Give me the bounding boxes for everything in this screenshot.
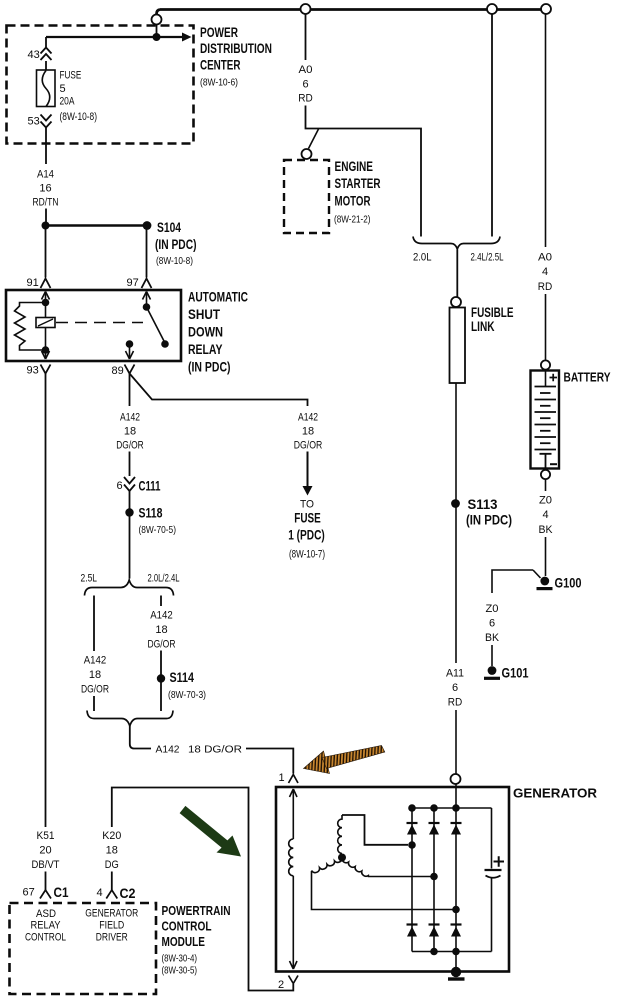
label wire A142 18 DG/OR (2.5L branch) xyxy=(81,655,109,696)
node junction dot PDC feed xyxy=(153,33,161,41)
label ASD relay control xyxy=(25,908,66,944)
diode D5 xyxy=(429,923,440,925)
svg-text:18 DG/OR: 18 DG/OR xyxy=(188,744,242,756)
label wire K20 18 DG xyxy=(102,830,121,871)
diode bridge column 1 xyxy=(411,808,413,952)
svg-text:4: 4 xyxy=(542,266,548,278)
svg-text:16: 16 xyxy=(39,183,51,195)
node bus connector circle B (generator feed) xyxy=(487,4,497,14)
label wire Z0 6 BK xyxy=(485,603,500,644)
svg-text:97: 97 xyxy=(127,277,139,289)
node contact end dot xyxy=(161,340,169,348)
node splice S104 xyxy=(143,221,152,230)
wire A0 4 RD lower xyxy=(545,294,547,361)
callout arrow green xyxy=(180,806,241,857)
powertrain control module box xyxy=(10,903,157,994)
node dot col2 top xyxy=(430,804,438,812)
svg-text:(8W-70-3): (8W-70-3) xyxy=(168,689,206,701)
svg-text:MODULE: MODULE xyxy=(162,934,206,949)
svg-text:K20: K20 xyxy=(102,830,121,842)
svg-text:DG/OR: DG/OR xyxy=(116,440,144,452)
brace merge above A142 xyxy=(87,711,173,727)
node battery positive terminal circle xyxy=(541,360,550,369)
svg-text:RELAY: RELAY xyxy=(31,920,62,932)
svg-text:(8W-10-8): (8W-10-8) xyxy=(156,255,193,267)
fuse F5 xyxy=(37,70,56,107)
svg-text:18: 18 xyxy=(106,845,118,857)
svg-text:A11: A11 xyxy=(446,668,464,680)
ground generator internal xyxy=(451,967,461,977)
node stator center xyxy=(338,854,346,862)
svg-text:S118: S118 xyxy=(139,506,163,521)
diode D2 xyxy=(429,822,440,824)
svg-text:(IN PDC): (IN PDC) xyxy=(155,237,197,252)
node dot col2 phase xyxy=(430,873,438,881)
svg-text:DG/OR: DG/OR xyxy=(294,440,323,452)
svg-text:RELAY: RELAY xyxy=(188,342,223,357)
svg-text:18: 18 xyxy=(155,624,167,636)
ground G100 xyxy=(540,577,549,586)
svg-text:SHUT: SHUT xyxy=(188,307,221,322)
wire A0 6 RD upper xyxy=(305,14,307,60)
wire 2.4L/2.5L feed xyxy=(491,14,493,237)
svg-text:2.0L/2.4L: 2.0L/2.4L xyxy=(148,573,180,585)
svg-text:93: 93 xyxy=(27,365,39,377)
svg-text:DG/OR: DG/OR xyxy=(81,684,109,696)
svg-text:S104: S104 xyxy=(157,220,181,235)
label powertrain control module xyxy=(162,903,231,949)
node bus connector circle A (starter feed) xyxy=(301,4,311,14)
node relay coil top dot xyxy=(42,299,50,307)
pin 97 chevron xyxy=(142,279,152,289)
wire to relay pin 91 xyxy=(45,226,47,278)
svg-text:18: 18 xyxy=(124,426,136,438)
svg-text:6: 6 xyxy=(302,79,308,91)
pin 89 chevron xyxy=(125,365,135,374)
wire bridge bottom bus xyxy=(412,951,492,953)
node splice S118 xyxy=(125,508,133,516)
label power distribution center xyxy=(200,25,272,73)
svg-text:RD: RD xyxy=(448,697,463,709)
wire bridge top bus xyxy=(412,807,492,809)
svg-text:FUSE: FUSE xyxy=(294,511,321,526)
ground G101 xyxy=(488,666,497,675)
wire arrow into PDC xyxy=(46,36,182,38)
wire chevron to fuse xyxy=(45,61,47,70)
svg-text:C111: C111 xyxy=(139,479,161,494)
wire Z0 4 BK lower xyxy=(545,537,547,576)
svg-text:20: 20 xyxy=(39,845,51,857)
relay armature dashed link xyxy=(56,322,143,324)
pin 53 double chevron xyxy=(41,115,52,128)
svg-text:A142: A142 xyxy=(156,744,180,756)
svg-text:DB/VT: DB/VT xyxy=(32,859,60,871)
svg-text:DG/OR: DG/OR xyxy=(148,639,176,651)
label automatic shut down relay xyxy=(188,290,248,375)
node junction dot at S104 line xyxy=(42,222,50,230)
svg-text:4: 4 xyxy=(97,887,103,899)
wire splice S104 xyxy=(46,224,148,227)
wire A0 6 RD to starter junction xyxy=(306,106,422,237)
svg-text:(8W-10-6): (8W-10-6) xyxy=(200,77,238,89)
svg-text:CONTROL: CONTROL xyxy=(25,932,66,944)
wire 2.5L branch upper xyxy=(93,596,95,652)
svg-text:A0: A0 xyxy=(538,252,552,264)
brace engine merge xyxy=(413,237,500,250)
svg-text:DOWN: DOWN xyxy=(188,325,223,340)
svg-text:BATTERY: BATTERY xyxy=(564,370,611,385)
connector C111 double chevron xyxy=(124,477,135,491)
pin 93 chevron xyxy=(41,365,51,374)
wire to C111 xyxy=(129,452,131,477)
wire Z0 4 BK upper xyxy=(545,479,547,491)
relay K1 automatic shut down box xyxy=(6,290,181,361)
label wire Z0 4 BK xyxy=(539,495,554,537)
wire K20 generator field driver xyxy=(112,788,293,991)
svg-text:STARTER: STARTER xyxy=(335,176,381,191)
svg-text:C1: C1 xyxy=(54,885,69,900)
node contact fixed dot xyxy=(143,303,151,311)
diode D4 xyxy=(407,923,418,925)
node starter terminal circle xyxy=(302,149,312,159)
svg-text:67: 67 xyxy=(23,887,35,899)
pin 91 chevron xyxy=(41,279,51,289)
capacitor C1 generator xyxy=(485,808,505,952)
svg-text:4: 4 xyxy=(542,509,548,521)
svg-text:(8W-21-2): (8W-21-2) xyxy=(334,214,371,226)
label generator field driver xyxy=(85,908,138,944)
wire A14 upper xyxy=(45,128,47,164)
wire starter stub xyxy=(309,129,319,149)
wire A11 to generator xyxy=(455,710,457,774)
wire pin 89 to fuse 1 branch xyxy=(130,374,308,407)
wire stator phase A thick link xyxy=(342,815,408,845)
svg-text:ASD: ASD xyxy=(36,908,56,920)
svg-text:DG: DG xyxy=(105,859,119,871)
wire A14 lower xyxy=(45,209,47,223)
svg-text:GENERATOR: GENERATOR xyxy=(85,908,138,920)
svg-text:CONTROL: CONTROL xyxy=(162,919,212,934)
label wire A142 18 DG/OR (fuse 1 branch) xyxy=(294,412,323,452)
svg-text:1: 1 xyxy=(279,772,285,784)
node fusible link terminal circle xyxy=(451,297,461,307)
svg-text:K51: K51 xyxy=(37,830,55,842)
svg-text:89: 89 xyxy=(112,365,124,377)
svg-text:DRIVER: DRIVER xyxy=(96,932,128,944)
svg-text:43: 43 xyxy=(28,49,40,61)
svg-text:5: 5 xyxy=(60,83,66,95)
svg-text:A14: A14 xyxy=(37,169,54,181)
pin 1 chevron xyxy=(289,775,299,784)
pin 91 internal arrow xyxy=(42,292,50,353)
svg-text:A142: A142 xyxy=(298,412,318,424)
svg-text:LINK: LINK xyxy=(471,319,495,334)
svg-text:BK: BK xyxy=(485,632,500,644)
node bus connector circle C (battery feed) xyxy=(541,4,551,14)
label wire A142 18 DG/OR (left of relay) xyxy=(116,412,144,452)
fusible link xyxy=(450,308,466,384)
label wire A11 6 RD xyxy=(446,668,464,709)
node splice S113 xyxy=(451,499,460,508)
svg-text:FIELD: FIELD xyxy=(99,920,124,932)
svg-text:2.5L: 2.5L xyxy=(81,573,98,585)
wire to G101 xyxy=(491,645,493,666)
svg-text:A142: A142 xyxy=(84,655,107,667)
label fuse 5 20A xyxy=(60,70,98,124)
node dot col1 phase xyxy=(408,841,416,849)
svg-text:C2: C2 xyxy=(120,886,136,901)
wire top bus B+ xyxy=(157,10,542,15)
svg-text:2: 2 xyxy=(278,979,284,991)
svg-text:S113: S113 xyxy=(468,497,498,512)
svg-text:Z0: Z0 xyxy=(539,495,552,507)
wire ground branch xyxy=(492,570,541,593)
node dot col1 top xyxy=(408,804,416,812)
wire brace to fusible link xyxy=(456,250,458,298)
svg-text:POWERTRAIN: POWERTRAIN xyxy=(162,903,231,918)
svg-text:BK: BK xyxy=(539,524,554,536)
label wire K51 20 DB/VT xyxy=(32,830,60,871)
label engine starter motor xyxy=(335,159,381,209)
battery minus sign xyxy=(550,463,557,465)
node relay coil bottom dot xyxy=(42,346,50,354)
diode D3 xyxy=(451,822,462,824)
svg-text:DISTRIBUTION: DISTRIBUTION xyxy=(200,41,272,56)
callout arrow orange striped xyxy=(304,746,385,774)
node dot col3 phase xyxy=(452,906,460,914)
node dot col3 top xyxy=(452,804,460,812)
generator stator wye xyxy=(312,815,457,910)
svg-text:1 (PDC): 1 (PDC) xyxy=(288,528,325,543)
svg-text:(IN PDC): (IN PDC) xyxy=(188,360,231,375)
diode bridge column 2 xyxy=(433,808,435,952)
svg-text:18: 18 xyxy=(302,426,314,438)
generator field coil xyxy=(289,789,297,969)
svg-text:AUTOMATIC: AUTOMATIC xyxy=(188,290,248,305)
node battery negative terminal circle xyxy=(541,470,550,479)
svg-text:6: 6 xyxy=(489,618,495,630)
battery xyxy=(531,371,560,469)
wire K51 long left xyxy=(45,374,47,828)
svg-text:G101: G101 xyxy=(502,666,529,681)
engine starter motor box xyxy=(284,160,329,233)
wire to pin 1 xyxy=(246,749,293,774)
label wire A14 16 RD/TN xyxy=(33,169,59,209)
pin C1 fork xyxy=(40,890,51,899)
wire merged A142 to generator pin 1 xyxy=(130,726,151,749)
svg-text:TO: TO xyxy=(300,499,314,511)
svg-text:(8W-10-7): (8W-10-7) xyxy=(289,549,325,561)
svg-text:POWER: POWER xyxy=(200,25,238,40)
wire C111 to S118 xyxy=(129,491,131,579)
node dot col3 bottom xyxy=(452,948,460,956)
wire from pin 89 down xyxy=(129,374,131,407)
svg-text:2.4L/2.5L: 2.4L/2.5L xyxy=(471,252,504,264)
svg-text:RD: RD xyxy=(538,281,553,293)
svg-text:6: 6 xyxy=(117,480,123,492)
svg-text:20A: 20A xyxy=(60,96,76,108)
brace split below S118 xyxy=(85,580,174,596)
svg-text:S114: S114 xyxy=(170,670,195,685)
battery plus sign xyxy=(550,374,558,381)
label wire A0 6 RD xyxy=(298,64,313,105)
svg-text:(8W-30-4): (8W-30-4) xyxy=(162,953,198,965)
diode bridge column 3 main line xyxy=(455,779,457,972)
wire S113 to A11 label xyxy=(455,504,457,664)
pin 97 internal arrow and contact xyxy=(143,292,166,344)
svg-text:RD: RD xyxy=(298,93,313,105)
power distribution center box xyxy=(7,26,194,144)
wire A0 4 RD upper xyxy=(545,14,547,247)
node bus connector circle left xyxy=(152,15,162,25)
wire to relay pin 97 xyxy=(146,226,148,278)
svg-text:CENTER: CENTER xyxy=(200,58,241,73)
wire 2.5L branch lower xyxy=(93,696,95,711)
pin 2 chevron xyxy=(289,976,299,984)
svg-text:53: 53 xyxy=(28,116,40,128)
pin C2 fork xyxy=(106,890,117,899)
relay armature box xyxy=(36,318,55,328)
node dot col2 bottom xyxy=(430,948,438,956)
wire 2.0L/2.4L branch upper xyxy=(160,596,162,607)
svg-text:G100: G100 xyxy=(555,576,582,591)
svg-text:A142: A142 xyxy=(150,610,173,622)
node pin 89 dot xyxy=(126,340,134,348)
svg-text:A0: A0 xyxy=(299,64,313,76)
svg-text:2.0L: 2.0L xyxy=(413,252,432,264)
label wire A142 18 DG/OR (2.0L branch) xyxy=(148,610,176,651)
svg-text:6: 6 xyxy=(452,682,458,694)
svg-text:RD/TN: RD/TN xyxy=(33,197,59,209)
svg-text:(8W-10-8): (8W-10-8) xyxy=(60,111,98,123)
svg-text:(IN PDC): (IN PDC) xyxy=(466,513,512,528)
wire fusible link to S113 xyxy=(455,383,457,500)
pin 89 internal arrow xyxy=(42,344,134,359)
svg-text:91: 91 xyxy=(27,277,39,289)
svg-text:GENERATOR: GENERATOR xyxy=(513,786,598,801)
generator box xyxy=(276,787,509,972)
svg-text:MOTOR: MOTOR xyxy=(335,194,371,209)
diode D1 xyxy=(407,822,418,824)
wire arrow to fuse 1 xyxy=(307,452,309,487)
wire to C1 xyxy=(45,872,47,891)
svg-text:FUSE: FUSE xyxy=(60,70,82,82)
pin 43 double chevron xyxy=(41,48,52,61)
label wire A0 4 RD xyxy=(538,252,553,294)
wire from bus into PDC xyxy=(156,25,158,34)
svg-text:A142: A142 xyxy=(120,412,140,424)
svg-text:(8W-70-5): (8W-70-5) xyxy=(139,524,177,536)
svg-text:FUSIBLE: FUSIBLE xyxy=(471,305,514,320)
node splice S114 xyxy=(157,674,165,682)
diode D6 xyxy=(451,923,462,925)
wire fuse top xyxy=(45,37,47,47)
svg-text:18: 18 xyxy=(89,669,101,681)
svg-text:ENGINE: ENGINE xyxy=(335,159,374,174)
svg-text:(8W-30-5): (8W-30-5) xyxy=(162,965,198,977)
relay coil zigzag xyxy=(15,303,46,351)
svg-text:Z0: Z0 xyxy=(486,603,499,615)
wire 2.0L/2.4L branch lower xyxy=(160,651,162,712)
node generator B+ terminal circle xyxy=(451,774,461,784)
